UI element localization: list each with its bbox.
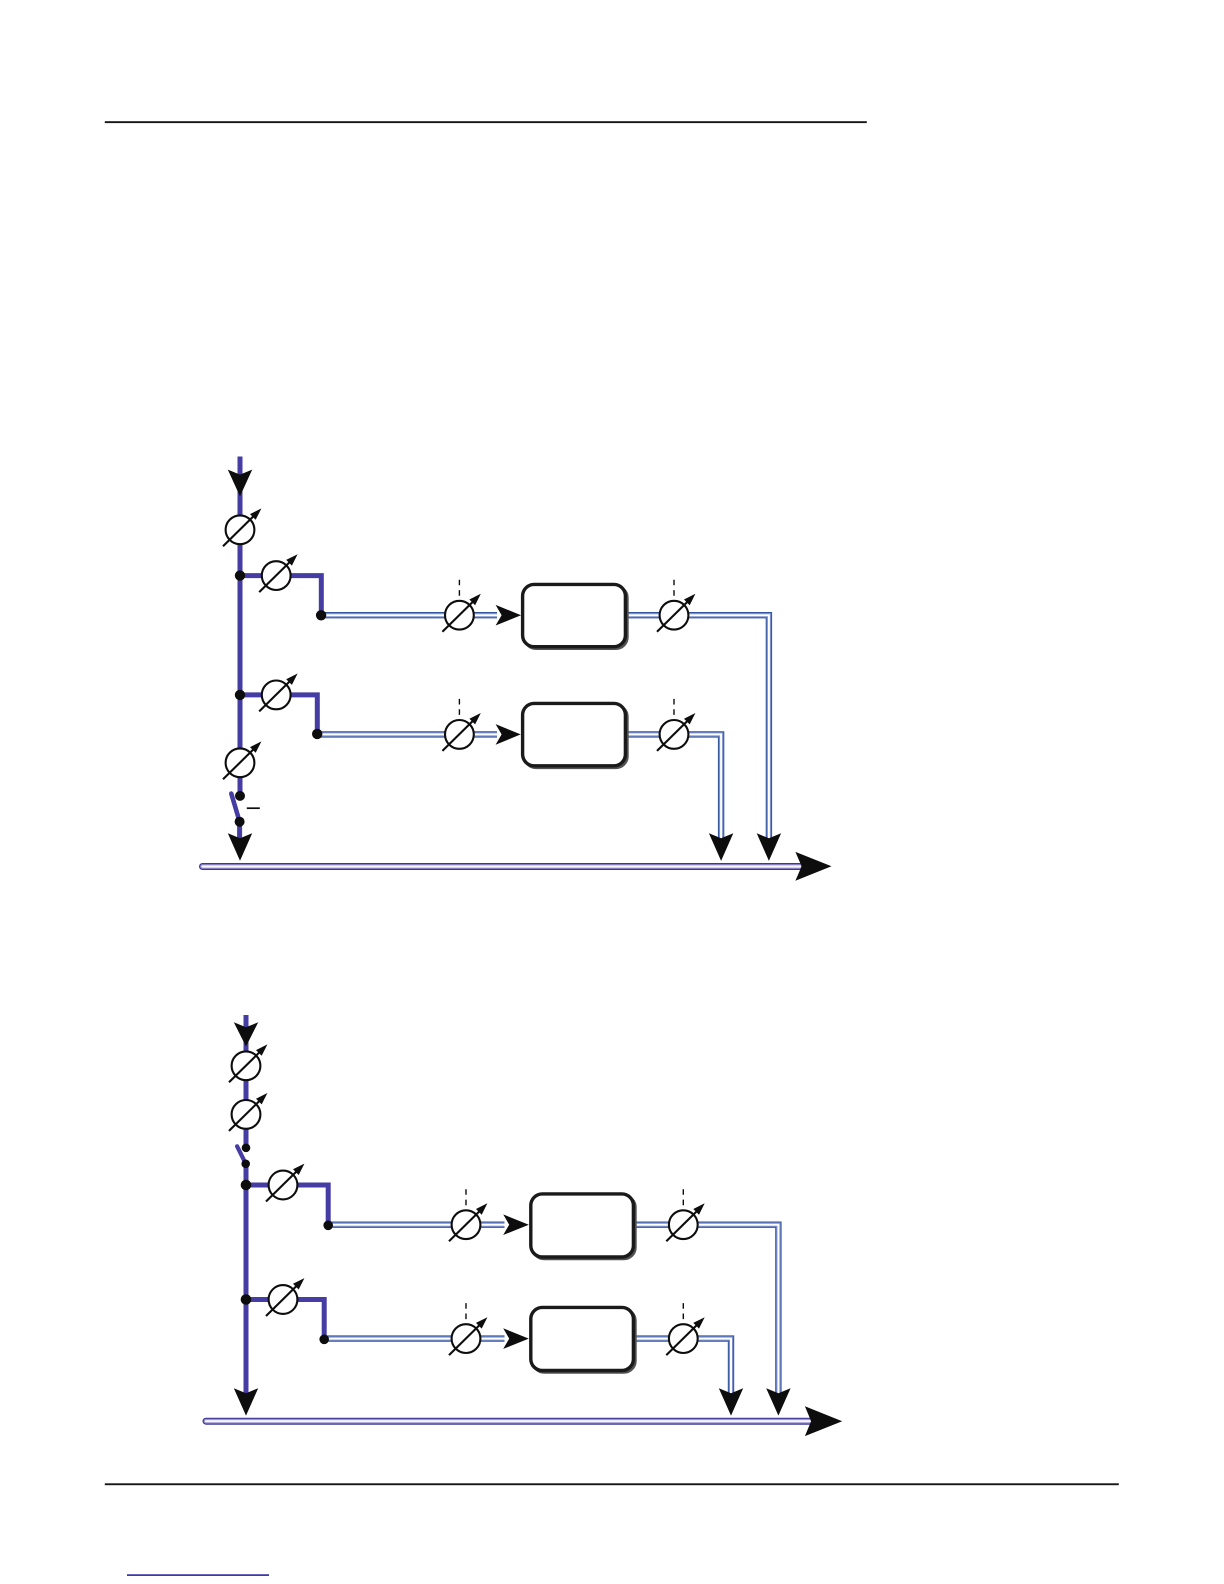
arrow into substation 1 (diagram 2) bbox=[503, 1214, 529, 1235]
wire: branch 2 supply (diagram 2) bbox=[246, 1300, 324, 1337]
return pipe substation 1 (diagram 2) bbox=[635, 1225, 778, 1395]
valve on branch 1 (diagram 1) bbox=[259, 554, 297, 592]
node: branch 2 pipe joint (diagram 2) bbox=[319, 1335, 329, 1345]
arrow return 2 into header (diagram 2) bbox=[719, 1388, 743, 1415]
supply pipe to substation 1 (diagram 2) bbox=[328, 1221, 504, 1227]
node: switch top (diagram 2) bbox=[242, 1144, 251, 1153]
node: branch 2 tee (diagram 1) bbox=[235, 690, 245, 700]
wire: supply main (diagram 1) bbox=[238, 457, 243, 796]
node: branch 1 tee (diagram 1) bbox=[235, 570, 245, 580]
arrow main to return header (diagram 2) bbox=[234, 1388, 258, 1415]
node: branch 1 pipe joint (diagram 2) bbox=[323, 1221, 333, 1231]
wire: supply main lower (diagram 2) bbox=[243, 1164, 248, 1396]
arrow main to return header (diagram 1) bbox=[228, 833, 252, 861]
pump substation 2 inlet (diagram 2) bbox=[449, 1303, 487, 1355]
node: branch 2 tee (diagram 2) bbox=[241, 1294, 252, 1305]
return pipe substation 1 (diagram 1) bbox=[627, 615, 769, 839]
pump substation 2 outlet (diagram 1) bbox=[657, 699, 695, 751]
substation block 1 (diagram 1) bbox=[523, 584, 628, 648]
substation block 2 (diagram 1) bbox=[523, 703, 628, 767]
switch control dash (diagram 1) bbox=[247, 807, 260, 809]
wire: branch 1 supply (diagram 2) bbox=[246, 1185, 328, 1223]
header outflow arrow (diagram 1) bbox=[795, 852, 831, 881]
header outflow arrow (diagram 2) bbox=[805, 1406, 842, 1436]
supply pipe to substation 1 (diagram 1) bbox=[321, 612, 497, 618]
substation block 2 (diagram 2) bbox=[531, 1307, 636, 1372]
valve V1 on supply main (diagram 1) bbox=[223, 508, 261, 546]
node: switch top (diagram 1) bbox=[235, 791, 245, 801]
arrow into substation 1 (diagram 1) bbox=[496, 605, 521, 626]
wire: branch 2 supply (diagram 1) bbox=[240, 695, 317, 732]
node: branch 1 tee (diagram 2) bbox=[241, 1180, 252, 1191]
arrow return 1 into header (diagram 1) bbox=[757, 833, 781, 861]
pump substation 1 outlet (diagram 1) bbox=[657, 580, 695, 632]
return pipe substation 2 (diagram 2) bbox=[635, 1339, 731, 1395]
node: branch 1 pipe joint (diagram 1) bbox=[316, 610, 326, 620]
switch blade (diagram 2) bbox=[237, 1146, 246, 1163]
node: branch 2 pipe joint (diagram 1) bbox=[312, 729, 322, 739]
valve V2 lower supply main (diagram 1) bbox=[223, 741, 261, 779]
header rule bbox=[105, 121, 867, 123]
valve on branch 2 (diagram 2) bbox=[266, 1278, 304, 1316]
footer link underline bbox=[127, 1574, 269, 1576]
return header pipe (diagram 2) bbox=[206, 1418, 810, 1425]
pump substation 2 outlet (diagram 2) bbox=[666, 1303, 704, 1355]
arrow into substation 2 (diagram 2) bbox=[503, 1328, 529, 1349]
valve V2 on supply main (diagram 2) bbox=[229, 1093, 267, 1131]
return header pipe (diagram 1) bbox=[203, 863, 801, 870]
valve V1 on supply main (diagram 2) bbox=[229, 1044, 267, 1082]
wire: below switch (diagram 1) bbox=[237, 822, 242, 841]
arrow into substation 2 (diagram 1) bbox=[496, 724, 521, 745]
inflow arrow (diagram 1) bbox=[228, 470, 252, 497]
arrow return 1 into header (diagram 2) bbox=[766, 1388, 790, 1415]
return pipe substation 2 (diagram 1) bbox=[627, 734, 721, 839]
supply pipe to substation 2 (diagram 2) bbox=[324, 1335, 504, 1341]
footer rule bbox=[105, 1483, 1119, 1485]
pump substation 1 inlet (diagram 2) bbox=[449, 1189, 487, 1241]
node: switch bottom (diagram 1) bbox=[235, 817, 245, 827]
inflow arrow (diagram 2) bbox=[234, 1022, 258, 1046]
valve on branch 1 (diagram 2) bbox=[266, 1164, 304, 1202]
valve on branch 2 (diagram 1) bbox=[259, 674, 297, 712]
pump substation 2 inlet (diagram 1) bbox=[442, 699, 480, 751]
wire: branch 1 supply (diagram 1) bbox=[240, 576, 321, 613]
substation block 1 (diagram 2) bbox=[531, 1194, 636, 1259]
arrow return 2 into header (diagram 1) bbox=[709, 833, 733, 861]
switch blade (diagram 1) bbox=[231, 794, 239, 822]
wire: supply main upper (diagram 2) bbox=[244, 1015, 249, 1148]
supply pipe to substation 2 (diagram 1) bbox=[317, 731, 497, 737]
pump substation 1 outlet (diagram 2) bbox=[666, 1189, 704, 1241]
node: switch bottom (diagram 2) bbox=[241, 1160, 250, 1169]
pump substation 1 inlet (diagram 1) bbox=[442, 580, 480, 632]
